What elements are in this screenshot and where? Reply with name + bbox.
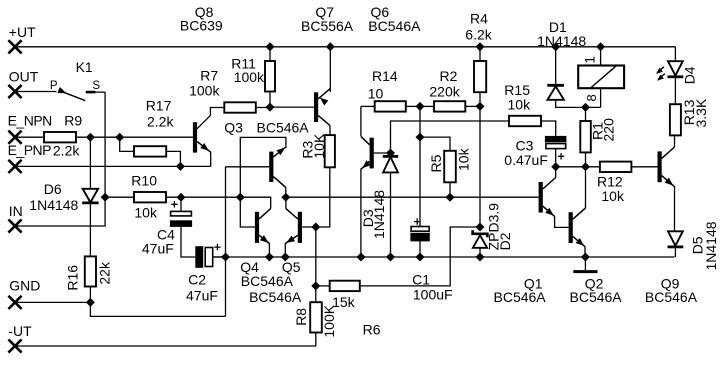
node zener top <box>476 223 484 231</box>
wire GND <box>15 301 90 303</box>
relay coil K1 <box>578 66 624 89</box>
svg-text:1: 1 <box>582 56 598 64</box>
wire C1 top <box>419 106 421 226</box>
resistor R15 <box>509 116 541 126</box>
svg-text:10k: 10k <box>601 188 625 204</box>
svg-text:R8: R8 <box>293 308 309 326</box>
wire R10 to C4 node <box>166 196 240 198</box>
resistor R17 <box>134 146 166 156</box>
wire D3 to GND rail <box>390 172 392 257</box>
node GND R16 <box>87 299 95 307</box>
wire R11 to node <box>269 92 271 108</box>
node long wire Q3/Q5 collectors <box>282 193 290 201</box>
svg-text:100k: 100k <box>189 82 220 98</box>
wire C2 to GND rail <box>213 256 226 258</box>
node R14 R2 C1 <box>416 103 424 111</box>
svg-text:100k: 100k <box>234 69 265 85</box>
node E_PNP junction R17 <box>177 163 185 171</box>
wire rail to D1 <box>555 47 557 85</box>
ground symbol <box>584 257 586 271</box>
switch K1 contact <box>57 87 66 93</box>
svg-text:E_NPN: E_NPN <box>8 113 52 129</box>
svg-text:S: S <box>92 80 100 92</box>
svg-text:10K: 10K <box>311 133 327 159</box>
wire R14 to node <box>406 105 420 107</box>
wire R17 right <box>166 151 180 166</box>
wire Q6 base <box>374 152 391 154</box>
resistor R12 <box>600 162 632 172</box>
transistor Q3 <box>269 152 273 182</box>
node R5 signal wire <box>446 193 454 201</box>
resistor R6 <box>330 281 360 291</box>
svg-text:R4: R4 <box>470 10 488 26</box>
svg-text:10k: 10k <box>134 205 158 221</box>
resistor R14 <box>375 101 406 111</box>
node rail R4 <box>476 43 484 51</box>
terminal -UT <box>8 339 21 352</box>
transistor Q5 <box>298 212 302 243</box>
svg-text:R14: R14 <box>372 68 398 84</box>
svg-text:220k: 220k <box>429 84 460 100</box>
node D3 anode <box>387 253 395 261</box>
svg-text:C3: C3 <box>516 138 534 154</box>
wire R3 to Q5 base corner <box>316 167 330 227</box>
node rail R11 <box>266 43 274 51</box>
node D1 relay R1 <box>582 104 590 112</box>
resistor R4 <box>474 61 486 92</box>
svg-text:BC546A: BC546A <box>249 289 302 305</box>
node Q5 base <box>312 223 320 231</box>
transistor Q7 <box>314 92 318 122</box>
wire R5 bottom <box>449 182 451 197</box>
svg-text:2.2k: 2.2k <box>53 143 80 159</box>
node rail D1 <box>552 43 560 51</box>
wire ground rail <box>213 256 675 258</box>
transistor Q6 <box>370 138 374 169</box>
svg-text:R2: R2 <box>440 68 458 84</box>
svg-text:D6: D6 <box>44 181 62 197</box>
svg-text:47uF: 47uF <box>142 240 174 256</box>
svg-text:R10: R10 <box>131 173 157 189</box>
wire rail to R11 <box>269 47 271 61</box>
svg-text:10k: 10k <box>508 97 532 113</box>
wire zener node to R6 <box>360 227 480 286</box>
wire R6 to R8 node <box>316 285 330 287</box>
diode D5 <box>668 231 683 245</box>
capacitor C4 <box>180 197 182 211</box>
transistor Q2 <box>569 212 573 243</box>
terminal E_PNP <box>8 160 21 173</box>
node rail relay pin1 <box>597 43 605 51</box>
node C4 top <box>177 193 185 201</box>
node R7 R11 Q7-base <box>266 103 274 111</box>
diode D3 <box>383 155 398 158</box>
svg-text:K1: K1 <box>76 59 93 75</box>
wire node to R2 <box>420 105 434 107</box>
resistor R5 <box>444 151 456 183</box>
svg-text:R6: R6 <box>363 321 381 337</box>
svg-text:BC546A: BC546A <box>570 289 623 305</box>
terminal OUT <box>8 85 21 98</box>
svg-text:100uF: 100uF <box>413 287 453 303</box>
wire R7 to node <box>256 107 270 109</box>
svg-text:47uF: 47uF <box>186 287 218 303</box>
node Q5 emitter <box>282 253 290 261</box>
terminal +UT <box>8 40 21 53</box>
node R2 R4 <box>476 103 484 111</box>
svg-text:BC546A: BC546A <box>241 273 294 289</box>
resistor R3 <box>325 135 335 167</box>
wire R4 down to zener <box>479 92 481 227</box>
svg-text:R7: R7 <box>200 67 218 83</box>
wire relay pin 1 <box>600 47 602 66</box>
svg-text:C1: C1 <box>412 271 430 287</box>
wire D4 to R13 <box>674 78 676 104</box>
svg-text:GND: GND <box>9 278 40 294</box>
wire node to R10 <box>105 196 134 198</box>
wire GND riser to Q3 base <box>225 167 227 317</box>
wire GND to C2/Q3 riser <box>90 302 225 316</box>
node C3 Q1 collector <box>552 163 560 171</box>
svg-text:BC546A: BC546A <box>645 289 698 305</box>
wire node to Q7 base <box>270 106 314 108</box>
svg-text:6.2k: 6.2k <box>465 26 492 42</box>
wire E_PNP <box>15 165 211 167</box>
svg-text:220: 220 <box>601 118 617 142</box>
svg-text:+UT: +UT <box>9 24 36 40</box>
svg-text:10: 10 <box>368 85 384 101</box>
wire R5 top <box>420 137 450 151</box>
resistor R10 <box>134 192 166 202</box>
resistor R16 <box>85 256 96 286</box>
node GND rail riser <box>222 253 230 261</box>
svg-text:1N4148: 1N4148 <box>703 221 719 270</box>
svg-text:-UT: -UT <box>8 323 32 339</box>
svg-text:BC546A: BC546A <box>494 289 547 305</box>
transistor Q4 <box>255 212 259 243</box>
wire R15 to C3 <box>541 121 556 136</box>
wire relay pin 8 <box>600 88 602 107</box>
capacitor C2 <box>195 246 203 268</box>
svg-text:P: P <box>50 80 58 92</box>
node E_NPN junction R17 <box>116 133 124 141</box>
svg-text:D2: D2 <box>497 232 513 250</box>
wire node to Q4 collector corner <box>240 197 270 208</box>
node Q6 emitter <box>357 253 365 261</box>
svg-text:BC546A: BC546A <box>368 18 421 34</box>
svg-text:R16: R16 <box>65 265 81 291</box>
wire Q5 base <box>302 226 316 228</box>
terminal IN <box>8 219 21 232</box>
resistor R11 <box>265 61 275 92</box>
wire Q5-base node down to R8 <box>315 227 317 302</box>
node Q6 base D3 <box>387 149 395 157</box>
node Q4 emitter <box>266 253 274 261</box>
terminal E_NPN <box>8 131 21 144</box>
svg-text:R9: R9 <box>64 112 82 128</box>
wire R16 to GND node <box>89 287 91 303</box>
node rail Q7 emitter <box>327 43 335 51</box>
svg-text:D4: D4 <box>682 66 698 84</box>
node E_NPN junction D6 <box>87 133 95 141</box>
wire R9 to Q8 base <box>76 136 193 138</box>
capacitor C1 <box>414 218 420 224</box>
resistor R9 <box>44 132 76 142</box>
resistor R2 <box>434 101 465 111</box>
svg-text:100K: 100K <box>321 304 337 337</box>
svg-text:R5: R5 <box>428 154 444 172</box>
wire rail to R4 <box>479 47 481 61</box>
svg-text:2.2k: 2.2k <box>147 114 174 130</box>
wire C3 node to R1 node <box>556 166 600 168</box>
wire IN <box>15 197 105 226</box>
wire R17 left <box>120 137 134 151</box>
node R8 top <box>312 282 320 290</box>
wire rail to D4 <box>674 47 676 61</box>
svg-text:BC639: BC639 <box>180 18 223 34</box>
resistor R1 <box>580 121 591 152</box>
svg-text:C2: C2 <box>188 272 206 288</box>
LED D4 <box>668 61 683 75</box>
svg-text:1N4148: 1N4148 <box>29 197 78 213</box>
wire switch S down to node <box>104 92 106 197</box>
wire +UT rail <box>15 46 675 48</box>
wire node to R1 <box>585 107 587 121</box>
resistor R13 <box>670 104 681 135</box>
svg-text:10k: 10k <box>456 147 472 171</box>
svg-text:0.47uF: 0.47uF <box>504 152 548 168</box>
capacitor C3 <box>545 136 567 142</box>
svg-text:1N4148: 1N4148 <box>537 33 586 49</box>
svg-text:1N4148: 1N4148 <box>371 190 387 239</box>
wire R1 bottom <box>585 152 587 166</box>
wire D1 anode to relay pin8 <box>556 100 601 108</box>
resistor R7 <box>224 102 256 112</box>
svg-text:BC546A: BC546A <box>257 120 310 136</box>
wire Q4 base <box>240 197 255 227</box>
svg-text:E_PNP: E_PNP <box>8 142 52 158</box>
wire E_NPN to R9 <box>15 136 44 138</box>
wire OUT to switch pole <box>15 91 57 93</box>
node R1 Q2 collector <box>582 163 590 171</box>
svg-text:BC556A: BC556A <box>301 18 354 34</box>
node zener bottom <box>476 253 484 261</box>
zener diode D2 ZPD3.9 <box>473 230 488 237</box>
node R10 S IN <box>101 193 109 201</box>
node Q4 base Q3 emitter <box>237 193 245 201</box>
wire C3 bottom <box>555 149 557 167</box>
diode D6 <box>83 189 98 203</box>
wire R2 to R4 line <box>465 105 480 107</box>
svg-text:8: 8 <box>584 94 599 101</box>
wire D6 to R16 <box>89 204 91 257</box>
wire D5 to ground rail <box>674 248 676 257</box>
svg-text:R17: R17 <box>146 97 172 113</box>
svg-text:Q3: Q3 <box>224 120 243 136</box>
transistor Q9 <box>658 151 662 182</box>
wire C1 bottom <box>419 241 421 257</box>
terminal GND <box>8 296 21 309</box>
transistor Q8 <box>193 122 197 152</box>
node C1 bottom <box>416 253 424 261</box>
wire Q6 collector to R14 <box>361 105 375 107</box>
node C1 R5 <box>416 133 424 141</box>
svg-text:OUT: OUT <box>9 69 39 85</box>
transistor Q1 <box>539 182 543 213</box>
svg-text:22k: 22k <box>97 261 113 285</box>
node Q2 emitter <box>582 253 590 261</box>
svg-text:3.3K: 3.3K <box>693 98 709 127</box>
resistor R8 <box>310 302 322 332</box>
wire R8 to -UT rail <box>15 333 316 347</box>
wire E_NPN node down to D6 <box>89 137 91 189</box>
svg-text:IN: IN <box>9 203 23 219</box>
svg-text:R12: R12 <box>597 173 623 189</box>
diode D1 <box>547 84 564 87</box>
wire C4 to C2 <box>181 227 195 257</box>
wire signal to Q1 base <box>286 196 539 198</box>
wire D3 node up and right to R15 <box>391 121 510 153</box>
wire R12 to Q9 base <box>631 166 657 168</box>
